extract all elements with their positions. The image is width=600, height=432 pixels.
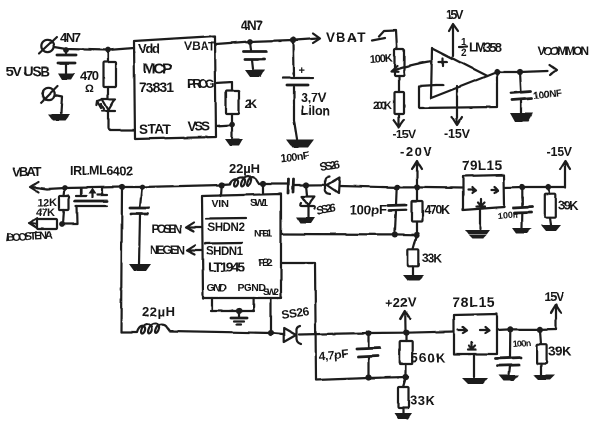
inductor L1 22uH	[219, 176, 267, 188]
ground R12	[533, 375, 555, 380]
svg-text:Ω: Ω	[85, 83, 94, 95]
resistor R12 39K	[537, 326, 572, 375]
ground R2	[225, 139, 243, 146]
+15V arrow	[446, 8, 465, 56]
diode D4 SS26 (bottom)	[271, 304, 310, 344]
15V arrow	[544, 290, 565, 329]
ground R10	[403, 275, 424, 281]
svg-text:100n: 100n	[497, 209, 518, 221]
label 1/2 LM358	[459, 37, 502, 59]
svg-text:33K: 33K	[422, 251, 442, 265]
svg-text:LiIon: LiIon	[301, 104, 330, 118]
capacitor C2 4N7	[244, 39, 266, 69]
svg-text:POSEN: POSEN	[152, 222, 182, 236]
svg-text:2K: 2K	[245, 97, 257, 111]
resistor R8 33K	[398, 377, 436, 413]
svg-text:39K: 39K	[548, 344, 572, 359]
svg-text:47K: 47K	[36, 207, 55, 219]
svg-text:SHDN1: SHDN1	[206, 246, 244, 258]
svg-text:470K: 470K	[424, 203, 450, 217]
svg-text:4,7pF: 4,7pF	[318, 346, 349, 363]
wire NFB1	[281, 233, 417, 236]
GND pins wiring	[211, 298, 254, 317]
resistor R4 200K	[373, 76, 416, 141]
svg-text:-15V: -15V	[444, 127, 471, 141]
svg-text:Vdd: Vdd	[138, 41, 160, 56]
svg-text:3,7V: 3,7V	[301, 91, 327, 105]
ground R8	[394, 413, 412, 419]
svg-text:VSS: VSS	[187, 119, 210, 134]
wire 78L15 output	[497, 329, 556, 330]
svg-text:VIN: VIN	[212, 198, 229, 210]
IC U5 78L15	[452, 294, 497, 354]
svg-text:100n: 100n	[512, 337, 531, 349]
label SHDN2 (with overline)	[206, 218, 246, 234]
svg-text:SW1: SW1	[250, 197, 268, 209]
ground U5	[462, 354, 488, 384]
ground U4	[465, 210, 490, 239]
wire 79L15 output	[504, 186, 565, 189]
ground U3	[231, 318, 247, 325]
svg-text:+: +	[299, 65, 305, 77]
wire long vertical to L2	[119, 184, 125, 332]
svg-text:+22V: +22V	[385, 295, 416, 310]
resistor R1 470	[80, 47, 116, 95]
-15V arrow (right)	[546, 145, 573, 187]
svg-text:LT1945: LT1945	[208, 259, 245, 275]
resistor R9 470K	[412, 187, 451, 238]
svg-text:39K: 39K	[558, 199, 578, 213]
+22V arrow	[385, 295, 416, 336]
connector pin 1 (5V USB)	[39, 37, 57, 54]
svg-text:VCOMMON: VCOMMON	[537, 44, 589, 58]
IC U3 LT1945 box	[202, 184, 281, 298]
wire VBAT stub to pot	[372, 30, 397, 49]
ground C3	[510, 113, 533, 122]
capacitor C9 100n	[496, 326, 531, 375]
wire gate	[62, 206, 78, 224]
ground pin2	[48, 114, 70, 121]
svg-text:NEGEN: NEGEN	[150, 243, 185, 257]
svg-text:VBAT: VBAT	[12, 164, 41, 179]
diode D2 SS26 (vertical)	[300, 182, 337, 218]
LED D1	[96, 87, 115, 111]
-15V arrow below op-amp	[444, 86, 471, 141]
ground R11	[541, 225, 561, 231]
svg-text:560K: 560K	[411, 350, 446, 365]
capacitor C1 4N7	[57, 47, 76, 73]
svg-text:79L15: 79L15	[462, 158, 502, 173]
ground C8	[512, 228, 532, 234]
resistor R6 47K	[29, 207, 65, 229]
svg-text:200K: 200K	[373, 100, 392, 112]
svg-text:22µH: 22µH	[229, 161, 260, 176]
resistor R10 33K	[408, 235, 443, 275]
IC U4 79L15	[462, 158, 504, 210]
svg-text:NFB1: NFB1	[254, 229, 273, 240]
connector pin 2	[41, 86, 58, 103]
inductor L2 22uH	[121, 323, 271, 333]
ground D2	[296, 217, 315, 223]
svg-text:/BOOSTENA: /BOOSTENA	[6, 230, 54, 244]
svg-text:FB2: FB2	[258, 257, 273, 269]
ground C2	[245, 70, 265, 77]
svg-text:4N7: 4N7	[241, 18, 263, 33]
svg-text:100K: 100K	[369, 52, 393, 66]
svg-text:MCP: MCP	[143, 60, 172, 77]
POSEN arrow	[152, 222, 202, 236]
wire PROG to R2	[216, 82, 232, 91]
svg-text:LM358: LM358	[469, 40, 502, 55]
svg-text:15V: 15V	[446, 8, 465, 22]
IC U1 MCP73831 box	[134, 36, 216, 139]
diode D3 SS26 (horizontal)	[306, 159, 341, 194]
svg-text:15V: 15V	[544, 290, 565, 304]
svg-text:PGND: PGND	[237, 282, 266, 294]
svg-text:470: 470	[80, 68, 99, 83]
svg-text:STAT: STAT	[139, 122, 172, 137]
wire D3 to -20V rail	[339, 186, 463, 188]
svg-text:PROG: PROG	[187, 77, 215, 91]
wire VSS junction	[216, 114, 235, 138]
ground battery	[286, 140, 314, 148]
svg-text:GND: GND	[207, 282, 227, 294]
capacitor C3 100nF	[511, 72, 562, 113]
svg-text:100pF: 100pF	[350, 202, 387, 217]
-20V arrow	[400, 144, 432, 190]
svg-text:33K: 33K	[410, 393, 436, 408]
plus input	[439, 58, 447, 66]
main middle wire	[47, 185, 222, 189]
SW2 stub	[268, 298, 274, 336]
resistor R5 12K	[37, 185, 69, 224]
transistor Q1 IRLML6402	[75, 188, 107, 206]
feedback wire	[419, 72, 497, 108]
ground C1	[58, 73, 75, 80]
wire bottom rail	[299, 332, 454, 335]
capacitor C7 100pF	[350, 184, 406, 237]
svg-text:SHDN2: SHDN2	[207, 222, 245, 234]
output wire VCOMMON	[487, 44, 589, 76]
svg-text:IRLML6402: IRLML6402	[70, 164, 133, 178]
svg-text:22µH: 22µH	[142, 304, 175, 319]
capacitor C5 4,7pF	[318, 330, 380, 381]
svg-text:2: 2	[461, 48, 467, 59]
svg-text:73831: 73831	[139, 79, 174, 95]
wire VBAT arrow (middle)	[30, 182, 47, 192]
VBAT arrow (top)	[290, 30, 365, 45]
capacitor C6 100nF (series)	[280, 150, 311, 193]
svg-text:VBAT: VBAT	[184, 41, 215, 53]
resistor R2 2K	[226, 91, 257, 114]
wire pin1 to Vdd	[54, 47, 134, 50]
wire SW1 to cap	[263, 183, 287, 185]
minus input	[436, 84, 443, 86]
resistor R11 39K	[545, 184, 578, 225]
ground C4	[129, 264, 151, 271]
svg-text:-15V: -15V	[393, 127, 416, 141]
capacitor C4	[130, 184, 149, 264]
svg-text:5V USB: 5V USB	[6, 63, 50, 79]
label SHDN1 (with overline)	[205, 243, 244, 258]
wire FB2	[281, 263, 406, 380]
svg-text:4N7: 4N7	[60, 30, 81, 45]
svg-text:-15V: -15V	[546, 145, 573, 159]
wire LED to STAT	[108, 111, 134, 130]
svg-text:78L15: 78L15	[452, 294, 495, 310]
NEGEN arrow	[150, 243, 202, 257]
svg-text:SW2: SW2	[263, 287, 279, 298]
wire VBAT out	[216, 40, 294, 44]
capacitor C8 100n	[497, 184, 532, 228]
ground C9	[499, 375, 519, 381]
op-amp U2 LM358	[431, 48, 487, 98]
resistor R7 560K	[400, 333, 446, 380]
potentiometer R3 100K	[369, 49, 432, 76]
wire pin2 to ground	[55, 96, 63, 114]
battery BT1 3.7V LiIon	[283, 40, 330, 139]
